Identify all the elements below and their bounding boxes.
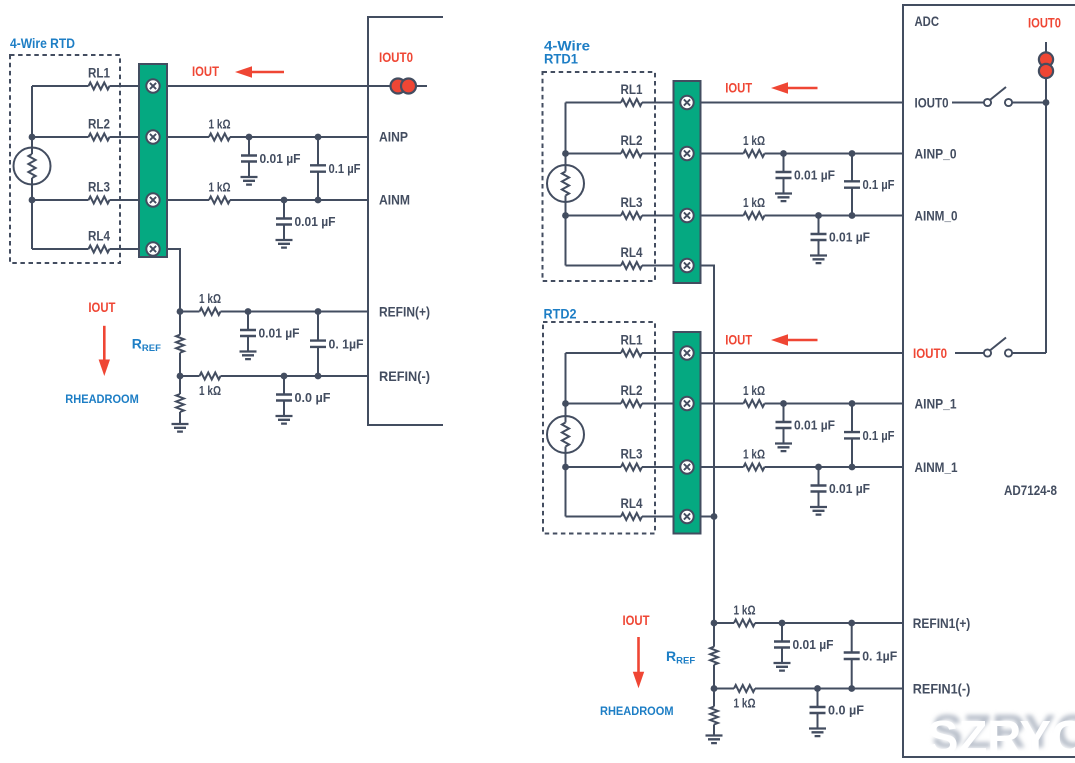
ground <box>276 416 293 424</box>
wire RTD left vertical bus <box>31 86 33 249</box>
arrow IOUT left (RTD1) <box>771 82 818 93</box>
svg-text:REFIN1(+): REFIN1(+) <box>913 615 971 631</box>
watermark SZRYC <box>927 705 1075 763</box>
junction RTD1-RL3 <box>562 212 569 219</box>
svg-text:IOUT: IOUT <box>192 64 220 79</box>
svg-text:0.01 µF: 0.01 µF <box>829 482 870 496</box>
resistor 1kΩ (REFIN1+) <box>734 620 755 627</box>
resistor RL3 (RTD1) <box>621 212 642 219</box>
IOUT0 contact pair (red circles) <box>391 79 417 94</box>
junction AINM_1 cap <box>815 464 822 471</box>
wire RREF leads <box>179 312 181 377</box>
junction RTD2-RL4 on bus <box>711 513 718 520</box>
junction AINM_1 bridge <box>849 464 856 471</box>
svg-text:AD7124-8: AD7124-8 <box>1004 482 1057 498</box>
resistor RREF (right) <box>710 647 718 665</box>
RTD1 sensor element <box>547 165 584 202</box>
svg-text:1 kΩ: 1 kΩ <box>743 384 765 398</box>
terminal 4 (RTD1 block) <box>680 259 693 272</box>
junction REFIN1- cap <box>814 685 821 692</box>
ground (RHEADROOM) <box>172 424 189 432</box>
svg-text:1 kΩ: 1 kΩ <box>199 292 221 306</box>
svg-text:0.0 µF: 0.0 µF <box>828 704 864 718</box>
junction AINM-bridge <box>315 197 322 204</box>
wire RL3 row <box>32 199 139 201</box>
wire REFIN1(+) row <box>714 622 903 624</box>
resistor RL3 (RTD2) <box>621 464 642 471</box>
terminal 3 (RTD1 block) <box>680 209 693 222</box>
svg-text:RL1: RL1 <box>621 82 643 97</box>
svg-text:1 kΩ: 1 kΩ <box>743 448 765 462</box>
wire RL3 row (RTD2) <box>566 466 674 468</box>
capacitor 0.1 µF bridging (852) <box>844 154 860 216</box>
resistor RL2 <box>89 134 110 141</box>
capacitor 0.01 µF at (284,200) <box>276 200 292 240</box>
wire REFIN(+) row <box>180 311 368 313</box>
svg-text:0.1 µF: 0.1 µF <box>329 162 361 176</box>
resistor RL2 (RTD1) <box>621 150 642 157</box>
svg-text:RL2: RL2 <box>621 383 643 398</box>
arrow IOUT down (right) <box>633 637 644 688</box>
wire AINM_1 row <box>701 466 904 468</box>
ADC partial box (left) <box>368 17 443 425</box>
resistor RL3 <box>89 197 110 204</box>
svg-text:0.01 µF: 0.01 µF <box>259 327 300 341</box>
junction REF1 node top <box>711 620 718 627</box>
junction REFIN1- bridge <box>848 685 855 692</box>
resistor RL2 (RTD2) <box>621 400 642 407</box>
svg-text:AINM_1: AINM_1 <box>915 459 958 475</box>
svg-text:AINP_0: AINP_0 <box>915 146 957 162</box>
wire RTD1-RL4 to vertical bus <box>701 266 715 624</box>
4-wire RTD dashed enclosure <box>10 55 120 263</box>
resistor RL1 (RTD1) <box>621 99 642 106</box>
svg-text:0.01 µF: 0.01 µF <box>260 152 301 166</box>
capacitor 0.01 µF at (818,467) <box>811 467 827 507</box>
wire AINM row <box>167 199 368 201</box>
svg-text:RL3: RL3 <box>621 195 643 210</box>
capacitor 0.01 µF at (784,154) <box>776 154 792 194</box>
capacitor 0.1 µF bridging (852) <box>844 404 860 468</box>
svg-text:IOUT: IOUT <box>623 613 651 628</box>
ADC box (right) <box>903 5 1075 757</box>
wire REFIN(-) row <box>180 375 368 377</box>
wire RTD2 left vertical bus <box>565 353 567 517</box>
wire RTD2-RL4 to vertical bus <box>701 516 715 518</box>
wire RREF leads (right) <box>713 623 715 689</box>
junction REFIN1+ cap <box>779 620 786 627</box>
terminal block (RTD2) <box>674 332 701 534</box>
ground <box>810 507 827 515</box>
arrow IOUT pointing left <box>235 66 284 77</box>
resistor 1kΩ (AINP_1) <box>744 400 765 407</box>
wire IOUT row RTD1 to ADC <box>701 102 904 104</box>
junction REF1 node bottom <box>711 685 718 692</box>
capacitor 0.01 µF at (248,312) <box>240 312 256 352</box>
wire RL1 row <box>32 85 139 87</box>
terminal 3 (left block) <box>146 193 159 206</box>
junction REF node top <box>177 308 184 315</box>
junction AINP-bridge <box>315 134 322 141</box>
terminal 2 (RTD1 block) <box>680 147 693 160</box>
resistor 1kΩ (AINP_0) <box>744 150 765 157</box>
svg-text:REFIN(-): REFIN(-) <box>379 368 430 384</box>
RTD2 dashed enclosure <box>543 322 655 534</box>
resistor RHEADROOM (right) <box>713 689 715 707</box>
terminal 2 (RTD2 block) <box>680 397 693 410</box>
svg-text:RHEADROOM: RHEADROOM <box>600 704 674 718</box>
svg-text:RREF: RREF <box>666 648 695 667</box>
svg-text:RL3: RL3 <box>88 180 110 195</box>
wire RL2 row (RTD1) <box>566 153 674 155</box>
wire RL3 row (RTD1) <box>566 215 674 217</box>
junction REFIN+ cap <box>245 308 252 315</box>
ground (RHEADROOM right) <box>706 736 723 744</box>
svg-text:RHEADROOM: RHEADROOM <box>65 392 139 406</box>
svg-text:AINP_1: AINP_1 <box>915 396 957 412</box>
junction IOUT0 bus <box>1043 99 1050 106</box>
svg-text:RL1: RL1 <box>621 333 643 348</box>
wire RL1 row (RTD1) <box>566 102 674 104</box>
svg-text:RL2: RL2 <box>88 117 110 132</box>
ground <box>775 444 792 452</box>
capacitor 0.01 µF at (818,216) <box>811 216 827 256</box>
wire RL2 row <box>32 136 139 138</box>
svg-text:0.01 µF: 0.01 µF <box>793 638 834 652</box>
wire RL4 row <box>32 248 139 250</box>
resistor 1kΩ (REFIN1-) <box>734 685 755 692</box>
svg-text:IOUT0: IOUT0 <box>1028 15 1061 31</box>
wire RTD1 left vertical bus <box>565 103 567 266</box>
wire IOUT0 vertical bus <box>1012 42 1046 353</box>
switch SW1 (IOUT0) <box>984 87 1012 106</box>
svg-text:IOUT0: IOUT0 <box>379 49 413 65</box>
svg-text:RL1: RL1 <box>88 66 110 81</box>
wire IOUT row to ADC <box>167 85 427 87</box>
ground <box>775 194 792 202</box>
resistor 1kΩ (REFIN+) <box>200 308 221 315</box>
terminal 4 (RTD2 block) <box>680 510 693 523</box>
svg-text:AINM_0: AINM_0 <box>915 208 958 224</box>
svg-text:4-Wire RTD: 4-Wire RTD <box>10 35 75 51</box>
resistor 1kΩ (AINP) <box>209 134 230 141</box>
svg-text:0. 1µF: 0. 1µF <box>329 337 364 351</box>
junction REFIN+ bridge <box>315 308 322 315</box>
junction REFIN1+ bridge <box>848 620 855 627</box>
svg-text:1 kΩ: 1 kΩ <box>209 118 231 132</box>
svg-text:0.01 µF: 0.01 µF <box>295 215 336 229</box>
capacitor 0.0 µF at (818,688) <box>810 689 826 729</box>
junction REF node bottom <box>177 373 184 380</box>
svg-text:REFIN1(-): REFIN1(-) <box>913 681 971 697</box>
arrow IOUT left (RTD2) <box>771 334 818 345</box>
svg-text:0.01 µF: 0.01 µF <box>794 169 835 183</box>
terminal 1 (RTD1 block) <box>680 96 693 109</box>
svg-text:1 kΩ: 1 kΩ <box>199 384 221 398</box>
ground <box>241 177 258 185</box>
svg-text:AINM: AINM <box>379 192 410 208</box>
svg-text:0.0 µF: 0.0 µF <box>295 391 331 405</box>
svg-text:0.01 µF: 0.01 µF <box>794 419 835 433</box>
terminal 1 (RTD2 block) <box>680 346 693 359</box>
svg-text:1 kΩ: 1 kΩ <box>209 181 231 195</box>
wire IOUT0 pin2 to switch <box>955 352 984 354</box>
wire REFIN1(-) row <box>714 688 903 690</box>
resistor RL4 (RTD1) <box>621 262 642 269</box>
ground <box>809 729 826 737</box>
resistor RL4 (RTD2) <box>621 513 642 520</box>
resistor RL4 <box>89 246 110 253</box>
svg-text:RREF: RREF <box>132 336 161 355</box>
junction AINP-cap <box>246 134 253 141</box>
wire AINP_1 row <box>701 403 904 405</box>
svg-text:0.1 µF: 0.1 µF <box>863 429 895 443</box>
svg-text:RL4: RL4 <box>621 496 643 511</box>
svg-text:REFIN(+): REFIN(+) <box>379 304 430 320</box>
svg-text:AINP: AINP <box>379 129 408 145</box>
junction AINM_0 bridge <box>849 212 856 219</box>
terminal block (left) <box>139 64 167 257</box>
wire RL1 row (RTD2) <box>566 352 674 354</box>
capacitor 0. 1µF bridging (318) <box>310 312 326 377</box>
junction RTD2-RL3 <box>562 464 569 471</box>
junction REFIN- cap <box>281 373 288 380</box>
wire AINP_0 row <box>701 153 904 155</box>
svg-text:1 kΩ: 1 kΩ <box>734 697 756 711</box>
RTD sensor element <box>14 148 51 185</box>
svg-text:0. 1µF: 0. 1µF <box>862 649 897 663</box>
svg-text:RL2: RL2 <box>621 133 643 148</box>
junction AINP_1 cap <box>780 400 787 407</box>
ground <box>810 256 827 264</box>
capacitor 0.01 µF at (782,623) <box>774 623 790 663</box>
capacitor 0.0 µF at (284,376) <box>276 376 292 416</box>
wire RL4 row (RTD1) <box>566 265 674 267</box>
resistor 1kΩ (AINM_0) <box>744 212 765 219</box>
junction AINP_1 bridge <box>849 400 856 407</box>
svg-text:RTD2: RTD2 <box>544 306 577 322</box>
wire AINM_0 row <box>701 215 904 217</box>
terminal 2 (left block) <box>146 130 159 143</box>
resistor RL1 (RTD2) <box>621 350 642 357</box>
terminal 3 (RTD2 block) <box>680 460 693 473</box>
svg-text:1 kΩ: 1 kΩ <box>743 196 765 210</box>
switch SW2 (IOUT0) <box>984 338 1012 357</box>
svg-text:RL3: RL3 <box>621 447 643 462</box>
svg-text:RL4: RL4 <box>621 245 643 260</box>
resistor 1kΩ (REFIN-) <box>200 373 221 380</box>
capacitor 0.01 µF at (784,404) <box>776 404 792 444</box>
svg-text:IOUT0: IOUT0 <box>915 95 949 111</box>
RTD2 sensor element <box>547 416 584 453</box>
svg-text:IOUT: IOUT <box>725 333 753 348</box>
resistor RL1 <box>89 83 110 90</box>
terminal 4 (left block) <box>146 242 159 255</box>
svg-text:1 kΩ: 1 kΩ <box>734 604 756 618</box>
RTD1 dashed enclosure <box>543 72 656 281</box>
svg-text:IOUT: IOUT <box>725 81 753 96</box>
arrow IOUT down <box>99 326 110 376</box>
junction RTD2-RL2 <box>562 400 569 407</box>
junction AINM-cap <box>281 197 288 204</box>
svg-text:ADC: ADC <box>915 13 940 29</box>
wire IOUT0 pin to switch <box>952 102 1046 104</box>
ground <box>276 240 293 248</box>
terminal block (RTD1) <box>674 81 701 283</box>
resistor RREF <box>176 335 184 353</box>
svg-text:SZRYC: SZRYC <box>927 711 1075 763</box>
resistor RHEADROOM <box>179 376 181 394</box>
junction RTD-RL2 <box>29 134 36 141</box>
svg-text:0.1 µF: 0.1 µF <box>863 178 895 192</box>
junction REFIN- bridge <box>315 373 322 380</box>
junction AINP_0 cap <box>780 150 787 157</box>
junction RTD-RL3 <box>29 197 36 204</box>
junction AINM_0 cap <box>815 212 822 219</box>
wire RL2 row (RTD2) <box>566 403 674 405</box>
junction RTD1-RL2 <box>562 150 569 157</box>
wire IOUT row RTD2 to ADC <box>701 352 904 354</box>
ground <box>240 352 257 360</box>
capacitor 0.1 µF bridging (318) <box>310 137 326 200</box>
wire AINP row <box>167 136 368 138</box>
svg-text:0.01 µF: 0.01 µF <box>829 231 870 245</box>
svg-text:IOUT: IOUT <box>88 300 116 315</box>
terminal 1 (left block) <box>146 79 159 92</box>
wire RL4 to REF node <box>167 249 180 312</box>
ground <box>774 663 791 671</box>
resistor 1kΩ (AINM_1) <box>744 464 765 471</box>
svg-text:RL4: RL4 <box>88 229 110 244</box>
svg-text:RTD1: RTD1 <box>544 51 578 67</box>
IOUT0 contact pair (red circles, vertical) <box>1039 52 1053 78</box>
svg-text:IOUT0: IOUT0 <box>913 345 947 361</box>
capacitor 0. 1µF bridging (852) <box>844 623 860 689</box>
junction AINP_0 bridge <box>849 150 856 157</box>
svg-text:1 kΩ: 1 kΩ <box>743 134 765 148</box>
resistor 1kΩ (AINM) <box>209 197 230 204</box>
wire RL4 row (RTD2) <box>566 516 674 518</box>
capacitor 0.01 µF at (249,137) <box>241 137 257 177</box>
